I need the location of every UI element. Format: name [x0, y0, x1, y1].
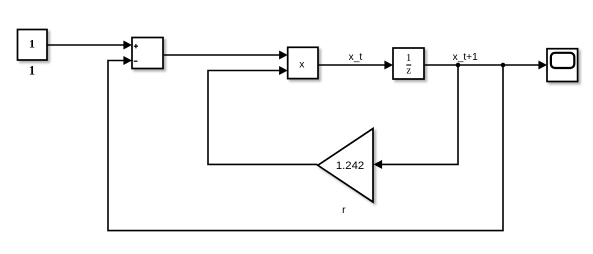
svg-text:1: 1	[29, 64, 35, 78]
svg-text:x_t+1: x_t+1	[453, 52, 479, 63]
svg-text:1.242: 1.242	[336, 160, 364, 172]
svg-text:1: 1	[406, 53, 411, 64]
svg-text:x_t: x_t	[349, 52, 363, 63]
svg-text:r: r	[342, 205, 346, 216]
svg-text:x: x	[299, 60, 305, 71]
svg-text:z: z	[406, 66, 411, 77]
svg-text:1: 1	[29, 37, 35, 51]
